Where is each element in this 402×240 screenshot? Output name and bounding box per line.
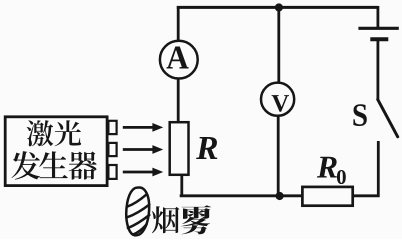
label 发生器 (generator) — [11, 151, 96, 179]
label S — [353, 104, 366, 126]
label R — [196, 137, 217, 159]
wire from top bus to ammeter — [177, 6, 180, 41]
wire top bus — [177, 6, 378, 9]
wire from switch contact to bottom right corner — [353, 141, 379, 196]
label 烟 (smoke) — [152, 206, 179, 233]
light beam arrow 1 — [123, 123, 163, 132]
wire bottom bus — [180, 194, 302, 197]
wire from ammeter to photoresistor R — [177, 78, 180, 122]
node junction bottom (voltmeter branch tap) — [276, 192, 284, 200]
wire from top bus to voltmeter — [277, 7, 280, 83]
wire from voltmeter to bottom bus — [277, 115, 280, 196]
wire from battery to switch pivot — [376, 39, 379, 100]
label R0 — [317, 157, 346, 184]
node junction top (voltmeter branch tap) — [275, 3, 283, 11]
light beam arrow 2 — [123, 145, 163, 154]
photoresistor R (rectangle) — [170, 122, 189, 175]
voltmeter V — [261, 83, 294, 116]
ammeter A — [160, 41, 198, 79]
laser output port 1 — [108, 121, 116, 134]
resistor R0 (box) — [302, 187, 352, 206]
laser output port 3 — [108, 165, 116, 179]
light beam arrow 3 — [123, 168, 163, 177]
label 激光 (laser) — [27, 120, 81, 146]
label 雾 (fog, composed) — [181, 205, 212, 234]
smoke swirl icon — [126, 187, 149, 235]
battery cell: short plate — [370, 37, 388, 41]
laser generator box — [5, 117, 107, 186]
switch S blade — [378, 99, 398, 136]
battery cell: long plate — [358, 27, 398, 30]
laser output port 2 — [108, 143, 116, 156]
wire from top bus to battery — [376, 6, 379, 28]
wire from R to bottom bus — [180, 175, 183, 196]
